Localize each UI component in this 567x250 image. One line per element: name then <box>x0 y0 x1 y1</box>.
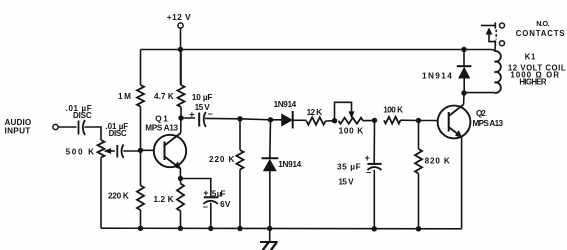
diode D1 cathode bar <box>292 111 294 129</box>
junction Q1 emitter node <box>178 176 183 181</box>
svg-text:+12 V: +12 V <box>167 13 191 22</box>
junction rail / D2 / ground <box>267 226 272 231</box>
junction Q1 collector / C3 <box>178 115 183 120</box>
terminal audio input <box>53 124 58 129</box>
wire node to R10 <box>418 121 420 150</box>
wire Q2 collector up <box>463 93 465 105</box>
svg-text:1 M: 1 M <box>118 92 131 101</box>
svg-text:100 K: 100 K <box>339 126 364 135</box>
wire D2 to ground rail <box>269 171 271 229</box>
diode D2 triangle <box>263 159 276 171</box>
wire C2 to base node <box>123 150 140 152</box>
contact bottom terminal <box>500 41 505 46</box>
wire C1 to pot <box>85 127 102 140</box>
wire contact top lead <box>481 25 495 27</box>
junction rail / D3 <box>461 47 466 52</box>
diode D1 triangle <box>282 114 293 126</box>
wire R6 to ground rail <box>239 170 241 229</box>
wire contact to coil <box>494 46 497 51</box>
svg-text:1N914: 1N914 <box>422 72 452 81</box>
diode D3 cathode bar <box>457 65 472 67</box>
junction base node Q1 <box>138 148 143 153</box>
wire R10 to ground rail <box>418 174 420 229</box>
potentiometer R8 body <box>339 118 364 124</box>
svg-text:10 µF: 10 µF <box>192 93 213 102</box>
wire C3 to detector node <box>181 118 282 120</box>
ground bar <box>260 241 278 243</box>
wire C4 to ground rail <box>210 203 212 229</box>
junction rail / R3 <box>138 226 143 231</box>
potentiometer R8 wiper bracket <box>335 102 352 120</box>
contact movable arm dashed <box>495 30 497 40</box>
resistor R6 220K <box>237 150 244 170</box>
wire R3 to ground rail <box>140 210 142 228</box>
junction rail / C4 <box>208 226 213 231</box>
wire wiper to C2 <box>111 150 115 152</box>
svg-text:DISC: DISC <box>109 129 127 138</box>
svg-text:220 K: 220 K <box>209 155 235 164</box>
transistor Q2 body <box>438 106 471 139</box>
junction top rail / +12V <box>178 47 183 52</box>
transistor Q2 emitter arrow <box>455 131 462 138</box>
svg-text:500 K: 500 K <box>66 148 95 157</box>
wire ground rail <box>101 227 462 230</box>
svg-text:INPUT: INPUT <box>5 127 31 136</box>
potentiometer R8 wiper arrow <box>349 112 354 118</box>
terminal +12V <box>178 23 183 28</box>
wire Q1 emitter down <box>179 169 181 179</box>
resistor R4 4.7K <box>178 85 185 107</box>
resistor R10 820K <box>415 149 422 174</box>
wire R8 to node <box>363 119 375 121</box>
junction rail / C5 <box>372 226 377 231</box>
wire R2 to base node <box>140 107 142 151</box>
svg-text:Q 2: Q 2 <box>476 109 486 118</box>
junction detector node <box>268 117 273 122</box>
wire pot bottom <box>100 158 102 229</box>
junction D3 / coil / Q2 collector <box>461 90 466 95</box>
ground stem <box>269 229 271 242</box>
wire base node to Q2 <box>419 120 439 122</box>
transistor Q1 body <box>154 135 186 167</box>
wire C5 to ground rail <box>373 170 375 229</box>
junction rail / R10 <box>416 226 421 231</box>
svg-text:MPS A13: MPS A13 <box>145 124 178 133</box>
junction C3 / R6 <box>237 116 242 121</box>
resistor R9 100K <box>384 117 401 124</box>
wire node to C5 <box>373 120 375 163</box>
capacitor C2 right plate <box>122 145 124 159</box>
transistor Q2 collector stroke <box>449 105 464 117</box>
wire D3 to collector node <box>463 78 465 93</box>
wire top rail <box>141 49 465 51</box>
wire Q1 collector up <box>180 107 182 133</box>
svg-text:–: – <box>208 108 213 118</box>
transistor Q2 emitter stroke <box>449 127 462 137</box>
wire node to D2 <box>269 120 272 158</box>
relay K1 coil <box>495 51 501 93</box>
wire R7 to pot R8 <box>326 120 335 122</box>
junction Q2 base node <box>416 118 421 123</box>
ground hatch 1 <box>263 242 269 250</box>
wire rail to R4 <box>180 50 182 86</box>
svg-text:N.O.: N.O. <box>536 19 550 28</box>
junction R8 / C5 / R9 <box>372 118 377 123</box>
svg-text:CONTACTS: CONTACTS <box>516 29 565 38</box>
transistor Q2 base bar <box>448 112 450 132</box>
capacitor C4 top plate <box>204 196 218 198</box>
contact bottom tick <box>494 40 496 46</box>
wire base node to R3 <box>140 151 142 186</box>
capacitor C1 left plate <box>78 121 80 135</box>
junction rail / R6 <box>237 226 242 231</box>
potentiometer R1 500K body <box>98 140 105 158</box>
wire rail to D3 <box>463 50 465 67</box>
svg-text:HIGHER: HIGHER <box>519 78 546 87</box>
svg-text:6 V: 6 V <box>220 200 231 209</box>
contact top terminal <box>500 23 505 28</box>
resistor R3 220K <box>137 186 144 211</box>
capacitor C1 right plate <box>83 120 85 135</box>
transistor Q1 emitter stroke <box>165 157 181 169</box>
diode D2 cathode bar <box>262 157 279 159</box>
svg-text:15 V: 15 V <box>338 178 354 187</box>
wire rail to R2 <box>140 50 142 86</box>
wire base node to Q1 <box>141 149 155 151</box>
wire R5 to ground rail <box>180 211 182 228</box>
resistor R2 1M <box>137 85 144 107</box>
capacitor C4 bottom plate <box>203 201 217 204</box>
transistor Q1 collector stroke <box>165 133 181 146</box>
transistor Q1 emitter arrow <box>174 162 181 169</box>
svg-text:1.2 K: 1.2 K <box>154 195 174 204</box>
wire Q2 emitter down <box>461 137 463 229</box>
wire coil bottom to collector node <box>464 92 495 94</box>
wire +12V drop <box>180 28 182 85</box>
diode D3 triangle <box>458 67 470 78</box>
contact arrow stem <box>489 34 495 42</box>
wire R9 to Q2 base node <box>401 119 419 121</box>
svg-text:4.7 K: 4.7 K <box>154 92 174 101</box>
wire node to R6 <box>239 119 241 150</box>
capacitor C3 left plate <box>198 113 200 127</box>
svg-text:1N914: 1N914 <box>274 100 297 109</box>
resistor R5 1.2K <box>177 184 184 212</box>
svg-text:K 1: K 1 <box>525 53 536 62</box>
capacitor C5 top plate <box>367 163 381 165</box>
contact motion arrow <box>486 28 492 35</box>
svg-text:Q 1: Q 1 <box>155 115 168 124</box>
svg-text:MPS A13: MPS A13 <box>473 119 504 128</box>
junction rail / R5 <box>178 226 183 231</box>
wire input to C1 <box>58 126 76 128</box>
resistor R7 12K <box>307 117 326 125</box>
capacitor C2 left plate <box>116 145 118 158</box>
svg-text:DISC: DISC <box>73 111 92 120</box>
wire D1 to R7 <box>293 119 307 121</box>
wire emitter node to R5 <box>180 179 182 184</box>
junction R7 / R8 <box>332 118 337 123</box>
svg-text:1N914: 1N914 <box>278 160 301 169</box>
svg-text:820 K: 820 K <box>425 157 450 166</box>
potentiometer R1 wiper arrow <box>104 149 111 154</box>
wire emitter node to C4 <box>181 179 211 198</box>
svg-text:100 K: 100 K <box>383 106 403 115</box>
svg-text:35 µF: 35 µF <box>337 163 361 172</box>
capacitor C5 bottom plate <box>367 167 381 170</box>
svg-text:+: + <box>365 153 370 163</box>
capacitor C3 right plate <box>204 112 206 127</box>
transistor Q1 base bar <box>164 142 166 161</box>
contact top tick <box>494 22 496 28</box>
wire rail to coil top <box>464 50 495 52</box>
ground hatch 2 <box>271 242 277 250</box>
svg-text:220 K: 220 K <box>108 192 129 201</box>
